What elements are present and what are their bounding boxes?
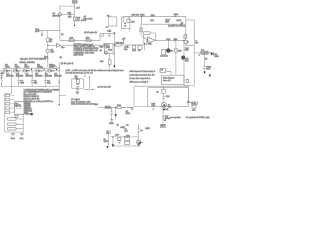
svg-text:104: 104 <box>185 50 189 52</box>
output jack J2 box <box>72 1 78 4</box>
capacitor C24 <box>162 97 165 99</box>
svg-text:on: on <box>106 27 109 29</box>
diode D6 <box>51 70 53 72</box>
node dot <box>59 70 60 71</box>
svg-text:1k: 1k <box>60 57 63 59</box>
wire drop 3 <box>45 71 47 87</box>
node dot <box>47 45 48 46</box>
wire to speaker <box>184 39 186 41</box>
capacitor C21 <box>175 39 176 41</box>
svg-text:R19: R19 <box>100 46 105 48</box>
svg-text:T1: T1 <box>161 70 164 72</box>
wire bottom line <box>110 136 138 138</box>
svg-text:100u: 100u <box>126 113 131 115</box>
wire divider V3 <box>175 40 177 75</box>
vertical C24 chain <box>162 111 164 124</box>
svg-text:b1: b1 <box>117 125 120 127</box>
capacitor C3 <box>31 81 33 83</box>
stub rail link 3 <box>43 68 45 71</box>
resistor R25 <box>144 32 151 34</box>
svg-text:10uF: 10uF <box>104 141 109 143</box>
boxed label 4.8V <box>192 102 198 105</box>
wire output <box>155 40 184 86</box>
node dot <box>59 68 60 69</box>
svg-text:16F84: 16F84 <box>15 106 22 108</box>
resistor R5 <box>53 66 56 68</box>
svg-text:e: e <box>153 108 155 110</box>
svg-text:R23: R23 <box>132 50 137 52</box>
svg-text:Out: Out <box>20 137 24 140</box>
connector J3 box 1 <box>8 118 16 120</box>
ground Q5 <box>162 109 166 111</box>
capacitor C11 <box>110 112 113 114</box>
wire <box>0 71 2 76</box>
svg-text:C24: C24 <box>166 96 171 98</box>
wire right bus <box>5 114 23 132</box>
connector J3 box 3 <box>8 128 16 130</box>
svg-text:2N3906: 2N3906 <box>26 76 34 78</box>
capacitor C27 <box>162 116 164 118</box>
transistor dark Q7 <box>137 140 141 144</box>
node dot <box>183 40 184 41</box>
wire divider vertical <box>47 30 49 67</box>
transistor Q6 <box>105 51 108 54</box>
text long note <box>66 69 125 74</box>
svg-text:precisely current in the .22: precisely current in the .22 <box>129 74 155 77</box>
diode D6 <box>113 32 115 34</box>
volume pot vertical <box>140 24 142 36</box>
wire R20 chain <box>109 53 111 69</box>
text block gain note <box>61 32 97 65</box>
wire base <box>61 14 74 16</box>
Q5 arrow <box>162 103 165 106</box>
+5V line <box>123 16 186 18</box>
wire input <box>39 30 60 32</box>
speaker box <box>186 20 194 46</box>
svg-text:2N3904: 2N3904 <box>52 15 60 17</box>
text notch block <box>129 71 156 84</box>
crystal X1 <box>15 116 18 118</box>
node dot <box>141 16 142 17</box>
diode D7 <box>113 65 115 68</box>
svg-text:16V: 16V <box>165 22 169 24</box>
svg-text:12: 12 <box>61 34 64 36</box>
svg-text:C20: C20 <box>108 49 113 51</box>
mark dark <box>164 120 166 121</box>
stub rail link 2 <box>31 68 33 71</box>
node dot <box>28 70 29 71</box>
svg-text:4.8V: 4.8V <box>192 103 197 105</box>
node dot <box>41 70 42 71</box>
diode D1 <box>211 52 214 55</box>
node dot <box>19 70 20 71</box>
connector J3 box 2 <box>8 123 16 125</box>
wire bottom feed <box>121 106 134 108</box>
svg-text:C16+: C16+ <box>174 14 180 16</box>
svg-text:2N3906: 2N3906 <box>6 76 14 78</box>
wire pins <box>10 95 15 112</box>
LED DL2 <box>182 56 185 59</box>
capacitor C5 <box>58 81 60 83</box>
wire box out <box>113 44 131 46</box>
feedback wire <box>144 33 156 43</box>
wire diode drop <box>115 107 117 114</box>
svg-text:OUT: OUT <box>73 2 78 4</box>
svg-text:R26: R26 <box>166 39 171 41</box>
wire drop 0 <box>10 71 12 87</box>
svg-text:R17: R17 <box>115 135 120 137</box>
diode D3 <box>17 70 19 72</box>
svg-text:104: 104 <box>68 16 72 18</box>
svg-text:4001: 4001 <box>214 56 219 58</box>
svg-text:104: 104 <box>150 20 154 22</box>
svg-text:1k: 1k <box>171 50 174 52</box>
svg-text:104: 104 <box>124 49 128 51</box>
switch SW1 <box>2 78 3 86</box>
svg-text:10k: 10k <box>51 52 55 54</box>
resistor R27 <box>175 48 177 52</box>
wire gnd line <box>113 145 139 147</box>
svg-text:2N3906: 2N3906 <box>35 76 43 78</box>
svg-text:2N3906: 2N3906 <box>45 76 53 78</box>
svg-text:akk: akk <box>192 110 196 112</box>
diode D5 <box>114 114 117 117</box>
resistor RN5 <box>6 111 10 113</box>
text block amps <box>74 43 99 57</box>
svg-text:Q2-Q4 1 BUTTON SENDS: Q2-Q4 1 BUTTON SENDS <box>20 59 47 61</box>
node dot <box>187 101 189 103</box>
op-amp U1 <box>57 43 61 47</box>
resistor R22 <box>116 44 122 46</box>
battery B1 <box>0 76 2 78</box>
text block adjust <box>71 98 96 106</box>
svg-text:SW2: SW2 <box>140 14 145 16</box>
boxed label IC1 <box>107 131 111 134</box>
svg-text:+9V: +9V <box>0 73 4 75</box>
node mark <box>209 74 211 76</box>
small box drop <box>118 138 121 141</box>
svg-text:for optimized SPKR cable: for optimized SPKR cable <box>186 116 211 119</box>
resistor R24 <box>138 45 142 49</box>
resistor R20 <box>109 60 112 65</box>
resistor R13 <box>117 106 121 108</box>
svg-text:1k: 1k <box>138 50 141 52</box>
capacitor C9 <box>76 88 79 92</box>
resistor R9 <box>36 70 39 72</box>
connector feed wire <box>5 87 12 132</box>
pot resistor <box>140 28 142 32</box>
svg-text:yes: yes <box>125 131 128 133</box>
svg-text:U1a: U1a <box>61 47 66 49</box>
svg-text:s: s <box>187 43 188 45</box>
svg-text:16V: 16V <box>206 68 210 70</box>
svg-text:GND: GND <box>109 123 114 125</box>
svg-text:tone ctrl: tone ctrl <box>163 79 171 82</box>
ground small <box>131 109 134 111</box>
boxed label pair <box>125 138 130 141</box>
switch S2 box <box>121 17 130 29</box>
resistor R3 <box>47 49 49 52</box>
capacitor Cd <box>118 141 121 143</box>
mid cluster box U3 <box>105 44 114 54</box>
svg-text:10u: 10u <box>185 61 189 63</box>
capacitor C2 <box>18 81 20 83</box>
text block IC notes <box>24 89 60 103</box>
op-amp U2B <box>148 37 155 44</box>
node dot <box>9 70 10 71</box>
svg-text:GND: GND <box>145 128 150 130</box>
wire line1 <box>2 67 59 69</box>
svg-text:2N3906: 2N3906 <box>54 76 62 78</box>
ground power <box>203 72 206 74</box>
wire c19 <box>104 32 114 34</box>
wire +5 vert <box>123 17 125 23</box>
svg-text:10n: 10n <box>35 31 39 33</box>
svg-text:difference on high fi: difference on high fi <box>129 82 148 84</box>
wire S2 out <box>129 29 131 32</box>
wire stub <box>41 31 43 34</box>
svg-text:is how the output de-a: is how the output de-a <box>129 77 151 80</box>
jack symbol 2 <box>20 133 24 135</box>
rail mid right <box>134 85 188 87</box>
wire <box>204 54 206 66</box>
wire V right box <box>187 86 189 102</box>
svg-text:4MHz: 4MHz <box>105 107 110 109</box>
svg-text:4k7: 4k7 <box>76 8 80 10</box>
wire to LM386 <box>194 52 201 54</box>
capacitor C18 <box>103 43 106 45</box>
svg-text:C14: C14 <box>67 12 72 14</box>
svg-text:DC-dB 18-38 max on P1 off: DC-dB 18-38 max on P1 off <box>66 72 93 74</box>
svg-text:+5V: +5V <box>122 38 126 40</box>
capacitor C16 <box>174 15 175 17</box>
resistor R7 <box>14 70 17 72</box>
pot wiper arrow <box>142 36 148 40</box>
node dot <box>112 136 113 137</box>
svg-text:C+: C+ <box>140 130 144 132</box>
IC pin labels <box>24 103 32 115</box>
svg-text:R41: R41 <box>165 109 170 111</box>
diode LED arrow <box>31 113 33 115</box>
capacitor C8 <box>76 84 79 89</box>
supply rail mid <box>60 36 100 40</box>
wire line2 mix bus <box>0 70 59 72</box>
speaker SP1 <box>184 40 187 43</box>
svg-text:x: x <box>199 54 201 56</box>
resistor R10 <box>48 70 51 72</box>
capacitor C4 <box>44 81 46 83</box>
svg-text:R27: R27 <box>178 51 183 53</box>
resistor R23 <box>133 46 136 50</box>
diode D4 <box>27 70 29 72</box>
diode ground <box>124 23 126 25</box>
node dot <box>53 70 54 71</box>
box small <box>100 33 103 36</box>
transistor Q1 <box>58 13 61 16</box>
svg-text:(8 dB gain 5): (8 dB gain 5) <box>61 63 74 65</box>
wire vert D6 <box>113 32 115 65</box>
V2 wire <box>184 46 194 86</box>
IC inner detail <box>16 104 21 108</box>
svg-text:1k: 1k <box>156 91 159 93</box>
B1 box <box>162 75 184 84</box>
resistor R4 <box>40 66 43 68</box>
small box in V2 <box>186 80 189 83</box>
svg-text:e: e <box>141 142 143 144</box>
wire top rail <box>60 3 75 6</box>
diode D5 <box>39 70 41 72</box>
svg-text:set 2.2k: set 2.2k <box>160 55 168 58</box>
power line 2 <box>142 23 186 25</box>
wire vertical B <box>74 6 76 25</box>
mark tick <box>74 7 76 8</box>
svg-text:wires left feedback merber: wires left feedback merber <box>71 103 96 106</box>
node dot <box>59 104 60 105</box>
wire stub LED <box>167 40 169 48</box>
node dot <box>47 58 48 59</box>
wire out <box>83 88 94 90</box>
svg-text:R22 10k: R22 10k <box>116 42 125 44</box>
wire U1 out <box>60 44 103 46</box>
svg-text:SP: SP <box>196 43 199 45</box>
wire supply arrow <box>88 77 90 90</box>
speaker wire <box>185 17 187 20</box>
ground <box>76 92 79 94</box>
wire T1 <box>166 71 172 75</box>
resistor RN2 <box>6 99 10 101</box>
capacitor Ce <box>137 129 140 132</box>
svg-text:2N3906: 2N3906 <box>16 76 24 78</box>
node dot <box>124 136 125 137</box>
Q5 box <box>148 88 189 107</box>
diode D2 <box>7 70 9 72</box>
boxed label bottom <box>161 124 166 127</box>
svg-text:1k: 1k <box>100 50 103 52</box>
resistor RN4 <box>6 107 10 109</box>
svg-text:104: 104 <box>34 82 38 84</box>
wire stub diode <box>143 43 145 50</box>
wire reg out <box>208 52 210 54</box>
mark x <box>114 53 115 54</box>
ground rail <box>2 86 60 88</box>
wire out bottom <box>188 101 192 103</box>
svg-text:U2b: U2b <box>148 44 153 46</box>
ground <box>110 120 113 122</box>
svg-text:SMALL 2N3906: SMALL 2N3906 <box>19 61 35 64</box>
wire to U1 <box>48 45 57 47</box>
box below <box>192 106 196 109</box>
wire drop 2 <box>31 71 33 87</box>
svg-text:C19: C19 <box>107 30 112 32</box>
wire in box <box>163 86 165 102</box>
svg-text:GND: GND <box>120 127 125 129</box>
resistor R15 <box>73 17 76 21</box>
battery column <box>0 71 4 87</box>
IC U4 PIC <box>14 102 24 115</box>
wire drop d <box>112 137 114 144</box>
svg-text:REMOTE on 1 kHz w/ DMTF no: REMOTE on 1 kHz w/ DMTF no <box>24 101 54 103</box>
boxed label T1 <box>160 69 166 73</box>
wire stub <box>141 17 143 25</box>
fuse box <box>184 35 187 39</box>
vertical right <box>138 124 140 140</box>
svg-text:470: 470 <box>131 21 135 23</box>
svg-text:RA4: RA4 <box>94 103 99 106</box>
stub rail link 4 <box>56 68 58 71</box>
wire +5 arrow <box>123 40 125 44</box>
resistor R18 <box>86 39 91 42</box>
LED DL1 <box>166 49 170 53</box>
resistor R16 <box>69 39 74 42</box>
wire <box>110 106 134 108</box>
svg-text:104: 104 <box>20 82 24 84</box>
svg-text:10k: 10k <box>75 78 79 80</box>
wire drop 1 <box>18 71 20 87</box>
jack symbol 1 <box>11 133 15 135</box>
R9 filter box <box>72 79 84 88</box>
wire drop 4 <box>59 62 66 105</box>
box bias <box>162 49 166 55</box>
wire ic1 <box>107 134 109 146</box>
svg-text:SPK: SPK <box>161 125 166 127</box>
ground q7 <box>137 145 140 147</box>
svg-text:400 blank of 1 kHz below 2: 400 blank of 1 kHz below 2 <box>129 71 156 73</box>
wire cap drop <box>111 107 113 119</box>
svg-text:1k: 1k <box>50 41 53 43</box>
resistor R2 <box>47 38 50 42</box>
svg-text:10k: 10k <box>100 61 104 63</box>
capacitor C14 <box>69 13 70 16</box>
capacitor C17 <box>128 45 129 48</box>
diode D8 <box>112 144 115 147</box>
node dot <box>115 107 116 108</box>
wire box left <box>134 86 148 106</box>
svg-text:+8 dB uh 1.2K: +8 dB uh 1.2K <box>97 87 111 89</box>
node dot <box>144 43 145 44</box>
relay K1 box <box>106 15 117 28</box>
svg-text:104: 104 <box>47 82 51 84</box>
transistor Q5 <box>161 102 166 107</box>
box 4MHz <box>105 106 110 109</box>
text block TIP <box>19 59 46 64</box>
capacitor C13 <box>37 30 40 32</box>
capacitor C19 <box>108 32 110 37</box>
wire <box>99 106 105 108</box>
resistor R6 <box>4 70 7 72</box>
svg-text:mt: mt <box>126 124 129 127</box>
regulator U5 <box>201 51 208 54</box>
resistor R9 <box>76 80 79 84</box>
resistor RN3 <box>6 103 10 105</box>
svg-text:AMP KITS: AMP KITS <box>74 53 84 56</box>
stub rail link 1 <box>15 68 17 71</box>
svg-text:C15 104: C15 104 <box>131 14 140 16</box>
svg-text:5V: 5V <box>205 59 208 61</box>
svg-text:LM386: LM386 <box>201 53 208 55</box>
node dot <box>114 44 115 45</box>
svg-text:(FB OUT): (FB OUT) <box>83 18 92 20</box>
svg-text:drk: drk <box>168 105 172 108</box>
resistor R40 <box>162 89 165 93</box>
svg-text:(7-18)V DC or batt: (7-18)V DC or batt <box>168 25 185 28</box>
wire vertical A <box>59 6 61 40</box>
resistor RN1 <box>6 94 10 96</box>
dark mark <box>107 146 109 148</box>
U2B input network <box>131 41 149 45</box>
svg-text:Gnd: Gnd <box>11 138 16 140</box>
capacitor C26 <box>203 67 206 69</box>
node dot <box>74 25 75 26</box>
